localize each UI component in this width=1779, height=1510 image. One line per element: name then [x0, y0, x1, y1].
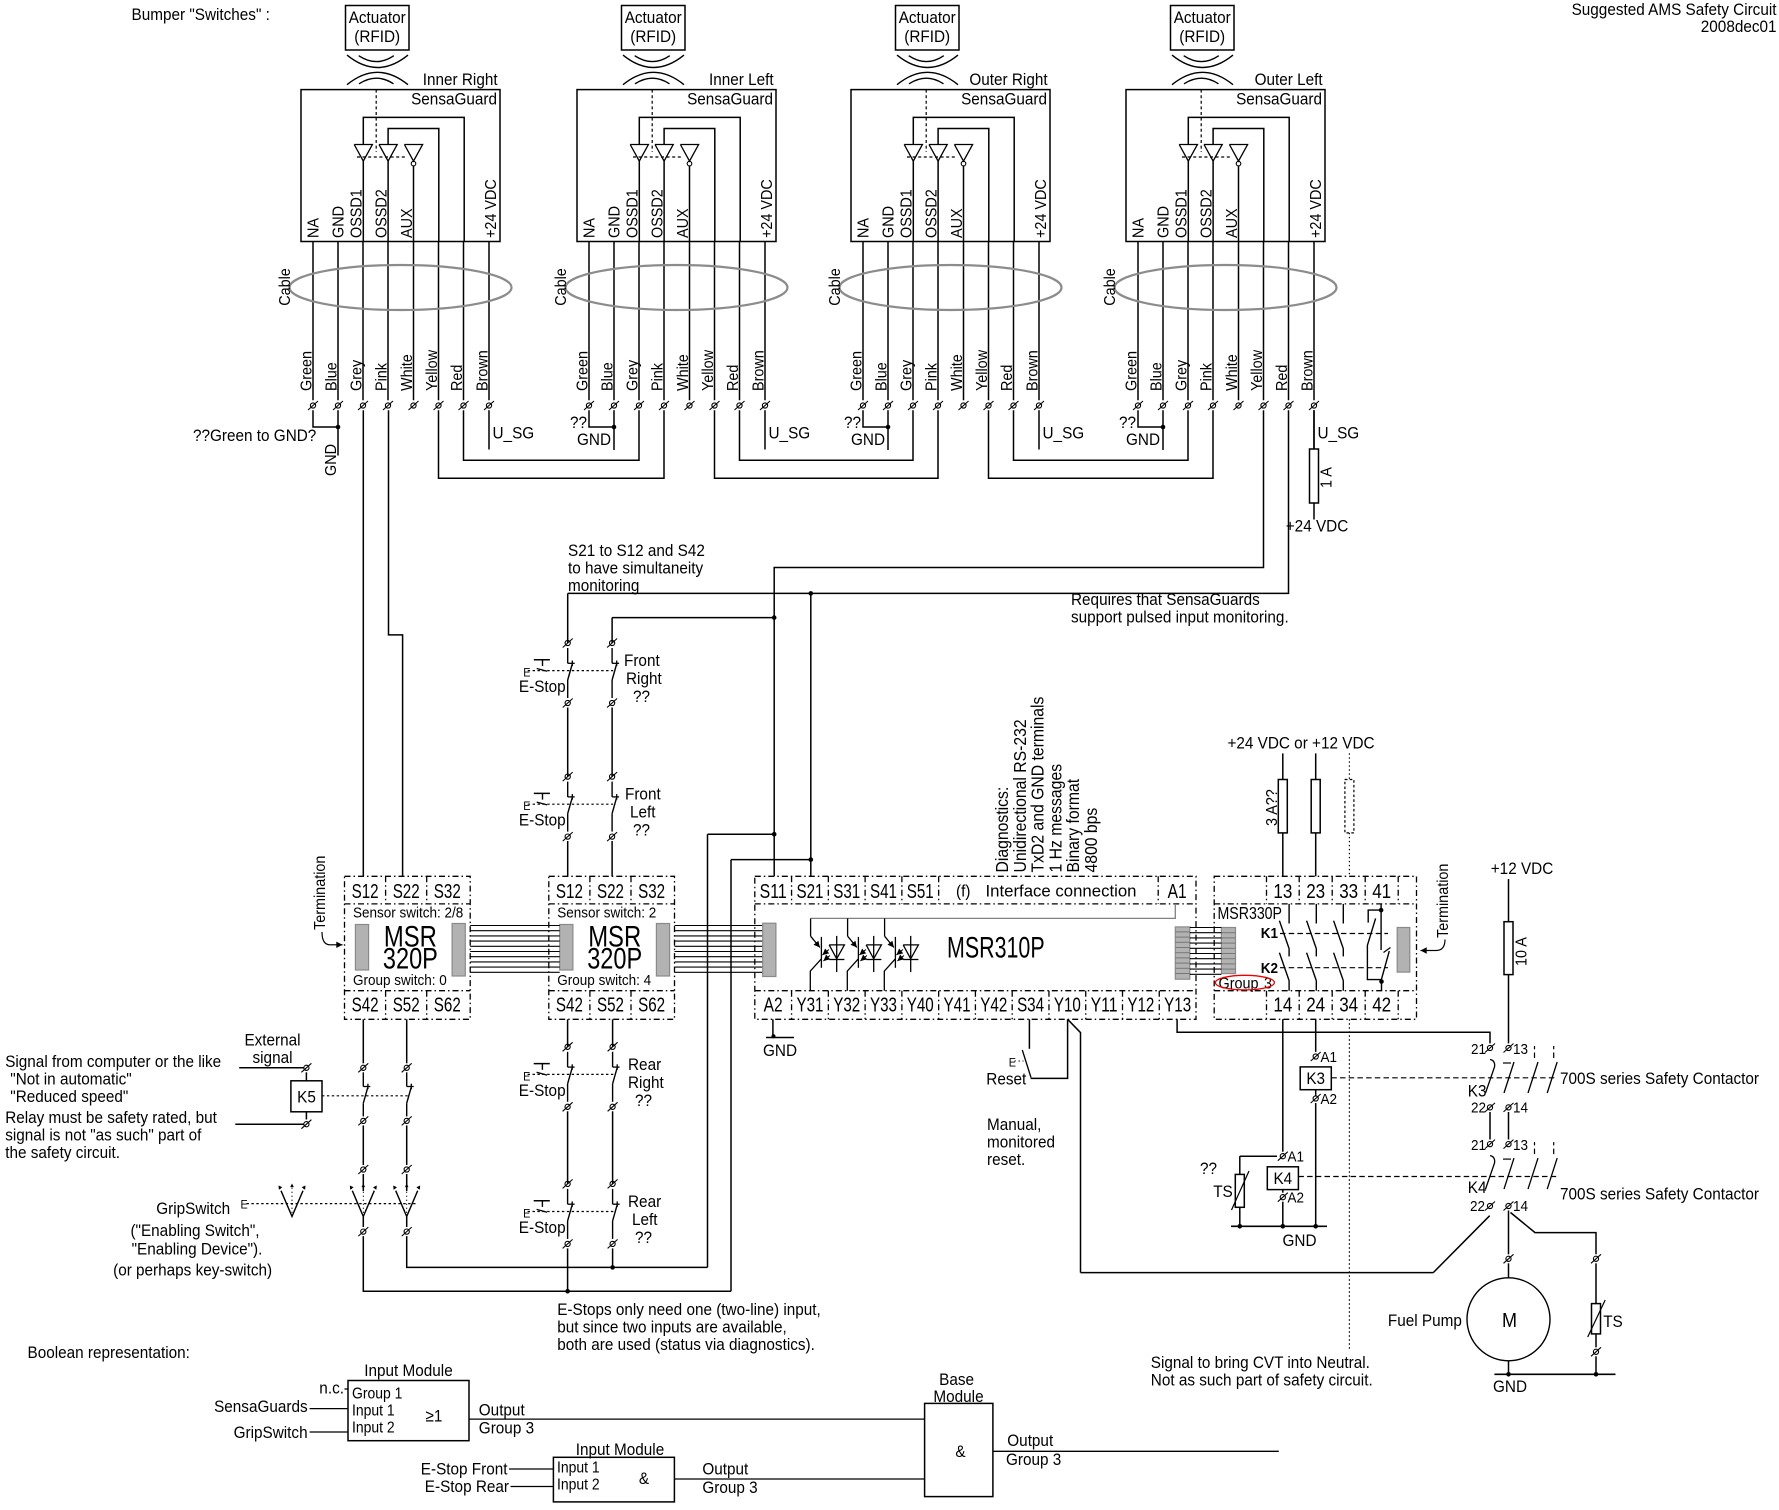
svg-text:700S series Safety Contactor: 700S series Safety Contactor: [1560, 1069, 1759, 1088]
wire MSR330P 24 to K3 A1: [1315, 1019, 1317, 1052]
svg-text:Y10: Y10: [1054, 994, 1081, 1017]
wire sensor4 Yellow to MSR310P S11: [774, 410, 1263, 876]
svg-text:22: 22: [1470, 1198, 1485, 1215]
svg-text:Brown: Brown: [1025, 350, 1042, 391]
MSR320P module 2 outer box: [549, 876, 675, 1019]
E-stop Front Left connector pair bottom: [565, 834, 570, 839]
optocoupler 2 in MSR310P: [847, 918, 849, 936]
SensaGuard box sensor 1: [301, 90, 500, 242]
wire link sensor1 Red to sensor2 Grey (OSSD1 chain): [464, 410, 640, 460]
svg-text:14: 14: [1513, 1100, 1528, 1117]
wire lower-left branch x708: [708, 833, 775, 835]
svg-text:S12: S12: [556, 880, 583, 903]
actuator (RFID) box sensor 4 Outer Left: [1171, 6, 1235, 51]
IM2 output wire to base module: [674, 1478, 924, 1480]
cable wires below sensor 1: [312, 242, 314, 401]
svg-text:E-Stop: E-Stop: [519, 1218, 566, 1237]
svg-text:GND: GND: [1283, 1231, 1317, 1250]
cable ellipse sensor 4: [1115, 265, 1337, 310]
wire motor to GND bar: [1508, 1361, 1510, 1375]
RFID antenna arcs sensor 2: [623, 55, 684, 67]
optocoupler 1 in MSR310P: [810, 918, 812, 936]
bottom rail upper (GripSwitch2 / RearLeft / x708): [407, 1236, 708, 1267]
svg-text:GND: GND: [1493, 1377, 1527, 1396]
E-stop Front Right contact left: [567, 648, 569, 663]
svg-text:A1: A1: [1168, 880, 1187, 903]
fuse F5 10A: [1508, 879, 1510, 1043]
svg-text:+24 VDC: +24 VDC: [1308, 179, 1325, 238]
wire RR chain to bottom rail: [567, 1248, 569, 1291]
svg-text:OSSD2: OSSD2: [650, 189, 667, 238]
OSSD2 output wire sensor 3: [937, 161, 939, 241]
svg-text:"Not in automatic": "Not in automatic": [10, 1070, 131, 1089]
wire link sensor1 Yellow to sensor2 Pink (OSSD2 chain): [439, 410, 665, 478]
svg-text:Termination: Termination: [312, 856, 329, 930]
svg-text:Fuel Pump: Fuel Pump: [1388, 1311, 1462, 1330]
E-stop Rear Left connector pair top: [565, 1181, 570, 1186]
MSR310P bottom cell dividers: [791, 991, 793, 1020]
svg-text:Pink: Pink: [374, 362, 391, 391]
E-stop Front Right mushroom actuator: [534, 659, 550, 661]
svg-text:41: 41: [1372, 880, 1391, 903]
svg-text:??: ??: [635, 1091, 652, 1110]
svg-text:33: 33: [1339, 880, 1358, 903]
svg-text:Front: Front: [625, 785, 661, 804]
svg-text:Actuator: Actuator: [349, 8, 406, 27]
AUX driver triangle with bubble sensor 3: [954, 145, 972, 162]
svg-text:42: 42: [1372, 994, 1391, 1017]
junction dot S21 rail at x811: [809, 591, 814, 596]
relay coil K5: [291, 1081, 322, 1112]
K3 700S extra pole slashes: [1528, 1062, 1538, 1093]
svg-text:S11: S11: [760, 880, 787, 903]
svg-text:("Enabling Switch",: ("Enabling Switch",: [130, 1221, 259, 1240]
junction dot S11 rail / lower-left branch: [772, 832, 777, 837]
wire RL chain to bottom rail: [612, 1248, 614, 1267]
fuel pump motor M: [1467, 1278, 1550, 1361]
E-stop Front Left mushroom actuator: [534, 792, 550, 794]
svg-text:AUX: AUX: [675, 208, 692, 238]
wire A2 to GND: [772, 1019, 774, 1037]
wire Y10 to K4 aux rail: [1068, 1019, 1081, 1272]
MSR320P module 1 right connector block: [452, 924, 465, 977]
svg-text:NA: NA: [582, 218, 599, 238]
svg-text:Group switch: 4: Group switch: 4: [557, 972, 651, 989]
svg-text:21: 21: [1471, 1041, 1486, 1058]
svg-text:13: 13: [1273, 880, 1292, 903]
K5 contact left chain: [361, 1065, 366, 1070]
AUX output wire sensor 1: [413, 166, 415, 242]
svg-text:??: ??: [633, 687, 650, 706]
svg-text:OSSD2: OSSD2: [1199, 189, 1216, 238]
input module 1 box (OR gate): [348, 1381, 469, 1441]
svg-text:GND: GND: [323, 444, 340, 476]
svg-text:monitoring: monitoring: [568, 576, 639, 595]
MSR310P terminal row lines: [755, 903, 1196, 905]
svg-text:S52: S52: [597, 994, 624, 1017]
cable wires below sensor 4: [1137, 242, 1139, 401]
internal feedback wire OSSD2-to-Yellow sensor 2: [664, 129, 715, 242]
fuse F2 3A?? to terminal 13: [1282, 753, 1284, 876]
svg-text:Green: Green: [299, 351, 316, 391]
AUX driver triangle with bubble sensor 1: [404, 145, 422, 162]
wire sensor4 Red to S21-S12 rail: [568, 410, 1289, 593]
svg-text:Red: Red: [1274, 365, 1291, 391]
svg-text:320P: 320P: [587, 943, 642, 976]
MSR330P right termination block: [1397, 928, 1410, 973]
svg-text:support pulsed input monitorin: support pulsed input monitoring.: [1071, 608, 1289, 627]
svg-text:Grey: Grey: [1174, 360, 1191, 391]
svg-text:Group 3: Group 3: [702, 1478, 757, 1497]
svg-text:NA: NA: [306, 218, 323, 238]
svg-text:+24 VDC or +12 VDC: +24 VDC or +12 VDC: [1227, 734, 1374, 753]
svg-text:S51: S51: [907, 880, 934, 903]
svg-text:??: ??: [1200, 1159, 1217, 1178]
svg-text:(RFID): (RFID): [630, 27, 676, 46]
svg-text:S42: S42: [352, 994, 379, 1017]
wire between RR and RL e-stops: [567, 1111, 569, 1184]
svg-text:1 A: 1 A: [1319, 467, 1336, 488]
ribbon cable MSR320P#2 to MSR310P: [675, 925, 763, 927]
relay coil K4: [1267, 1167, 1298, 1190]
K3 main contact 13-14: [1506, 1045, 1511, 1050]
svg-text:Group switch: 0: Group switch: 0: [353, 972, 447, 989]
svg-text:(or perhaps key-switch): (or perhaps key-switch): [113, 1261, 272, 1280]
OSSD2 output wire sensor 2: [663, 161, 665, 241]
MSR320P module 2 right connector block: [656, 924, 669, 977]
U_SG stub wire sensor 3: [1038, 410, 1040, 449]
wire link sensor3 Red to sensor4 Grey (OSSD1 chain): [1014, 410, 1189, 460]
fuel pump feed connector: [1506, 1256, 1511, 1261]
wire MSR330P 14 to K4 A1: [1282, 1019, 1284, 1151]
wire between FR and FL e-stops: [567, 708, 569, 777]
OSSD2 driver triangle sensor 2: [655, 145, 673, 162]
svg-text:signal is not "as such" part o: signal is not "as such" part of: [5, 1126, 201, 1145]
svg-text:Green: Green: [1124, 351, 1141, 391]
svg-text:E: E: [1009, 1056, 1016, 1070]
svg-text:14: 14: [1513, 1198, 1528, 1215]
svg-text:S21: S21: [796, 880, 823, 903]
svg-text:OSSD1: OSSD1: [625, 189, 642, 238]
svg-text:Cable: Cable: [277, 268, 294, 306]
E-stop Rear Left contact right: [612, 1189, 614, 1204]
svg-text:S31: S31: [833, 880, 860, 903]
svg-text:Grey: Grey: [899, 360, 916, 391]
svg-text:NA: NA: [1131, 218, 1148, 238]
MSR330P contact column 1: [1288, 904, 1290, 924]
svg-text:K2: K2: [1261, 960, 1278, 977]
wire K4 aux 22 diagonal to Y10 rail: [1433, 1216, 1489, 1273]
MSR330P terminal row lines: [1214, 903, 1416, 905]
MSR330P contact column 3: [1342, 904, 1344, 924]
E-stop Rear Left contact left: [567, 1189, 569, 1204]
GND bar fuel pump: [1494, 1373, 1615, 1375]
svg-text:Y40: Y40: [907, 994, 934, 1017]
svg-text:NA: NA: [856, 218, 873, 238]
svg-text:S12: S12: [352, 880, 379, 903]
connector symbols sensor 3: [860, 403, 865, 408]
wire FL e-stop to MSR320P#2 inputs: [567, 841, 569, 876]
bottom rail lower (GripSwitch1 / RearRight / x731): [363, 1236, 731, 1291]
svg-text:??: ??: [635, 1228, 652, 1247]
svg-text:GND: GND: [763, 1041, 797, 1060]
svg-text:Green: Green: [575, 351, 592, 391]
K4 linkage dashed to contacts: [1298, 1176, 1557, 1178]
base module box (AND): [925, 1403, 993, 1496]
E-stop Rear Left connector pair bottom: [565, 1241, 570, 1246]
svg-text:Group 3: Group 3: [479, 1418, 534, 1437]
internal dashed RFID link sensor 1: [375, 90, 377, 152]
E-stop Front Right connector pair top: [565, 640, 570, 645]
E-stop Rear Right connector pair top: [565, 1044, 570, 1049]
svg-text:A2: A2: [1321, 1091, 1338, 1108]
svg-text:reset.: reset.: [987, 1150, 1025, 1169]
svg-text:Termination: Termination: [1435, 864, 1452, 938]
K5 contact right chain: [404, 1065, 409, 1070]
svg-text:Cable: Cable: [827, 268, 844, 306]
svg-text:the safety circuit.: the safety circuit.: [5, 1143, 120, 1162]
E-stop Front Right contact right: [611, 648, 613, 663]
OSSD1 output wire sensor 4: [1187, 161, 1189, 241]
svg-text:U_SG: U_SG: [769, 424, 811, 443]
OSSD1 driver triangle sensor 1: [354, 145, 372, 162]
svg-text:but since two inputs are avail: but since two inputs are available,: [557, 1318, 787, 1337]
varistor TS right: [1592, 1304, 1601, 1334]
svg-text:GripSwitch: GripSwitch: [156, 1199, 230, 1218]
GripSwitch contact left chain: [352, 1191, 374, 1217]
cable ellipse sensor 1: [290, 265, 512, 310]
wire MSR1 S42 S52 to K5 contacts: [362, 1019, 364, 1063]
MSR310P top cell dividers: [791, 876, 793, 904]
svg-text:S42: S42: [556, 994, 583, 1017]
svg-text:Pink: Pink: [924, 362, 941, 391]
wire link sensor3 Yellow to sensor4 Pink (OSSD2 chain): [989, 410, 1214, 478]
svg-text:SensaGuard: SensaGuard: [687, 90, 773, 109]
GND bar for A2: [766, 1037, 794, 1039]
svg-text:S62: S62: [434, 994, 461, 1017]
svg-text:Y42: Y42: [980, 994, 1007, 1017]
svg-text:Yellow: Yellow: [424, 350, 441, 391]
fuse F3 to terminal 23: [1315, 753, 1317, 876]
svg-text:Input 2: Input 2: [557, 1477, 600, 1494]
svg-text:K3: K3: [1306, 1069, 1325, 1088]
internal feedback wire OSSD2-to-Yellow sensor 4: [1213, 129, 1264, 242]
MSR330P left connector block: [1221, 928, 1235, 974]
wire K5 bottom to signal return: [305, 1112, 307, 1120]
E-stop Rear Right connector pair bottom: [565, 1104, 570, 1109]
svg-text:13: 13: [1513, 1041, 1528, 1058]
svg-text:Blue: Blue: [874, 362, 891, 391]
svg-text:Inner Right: Inner Right: [423, 70, 498, 89]
svg-text:to have simultaneity: to have simultaneity: [568, 559, 704, 578]
svg-text:Actuator: Actuator: [899, 8, 956, 27]
wire K4 A2 to GND bar: [1282, 1202, 1284, 1227]
OSSD1 driver triangle sensor 4: [1179, 145, 1197, 162]
svg-text:E-Stop Front: E-Stop Front: [421, 1460, 508, 1479]
svg-text:GND: GND: [1156, 206, 1173, 238]
wire external signal to K5 top: [239, 1067, 303, 1069]
E-stop Front Left contact left: [567, 782, 569, 797]
svg-text:E-Stop Rear: E-Stop Rear: [425, 1477, 510, 1496]
MSR320P module 2 left connector block: [560, 925, 573, 971]
U_SG stub wire sensor 4: [1313, 410, 1315, 449]
svg-text:Group 1: Group 1: [352, 1386, 402, 1403]
svg-text:A1: A1: [1321, 1049, 1338, 1066]
svg-text:Brown: Brown: [751, 350, 768, 391]
svg-text:S52: S52: [393, 994, 420, 1017]
E-stop Rear Right contact left: [567, 1052, 569, 1067]
svg-text:24: 24: [1306, 994, 1325, 1017]
svg-text:Grey: Grey: [349, 360, 366, 391]
RFID antenna arcs sensor 1: [347, 55, 408, 67]
svg-text:S34: S34: [1017, 994, 1044, 1017]
svg-text:GripSwitch: GripSwitch: [234, 1423, 308, 1442]
svg-text:Yellow: Yellow: [1249, 350, 1266, 391]
svg-text:&: &: [639, 1469, 650, 1488]
optional dotted fuse F4 to terminal 33: [1348, 753, 1350, 779]
svg-text:Requires that SensaGuards: Requires that SensaGuards: [1071, 590, 1260, 609]
SensaGuard box sensor 4: [1126, 90, 1325, 242]
wire FR chain left leg from rail: [567, 593, 569, 643]
wire Y13 to K3 aux chain rail: [1177, 1019, 1490, 1043]
svg-text:MSR330P: MSR330P: [1218, 903, 1283, 923]
svg-text:S62: S62: [638, 994, 665, 1017]
fuse F1 1A on U_SG supply: [1313, 410, 1315, 519]
svg-text:Red: Red: [449, 365, 466, 391]
svg-text:Brown: Brown: [1300, 350, 1317, 391]
OSSD1 driver triangle sensor 2: [630, 145, 648, 162]
wire TS right branch: [1595, 1263, 1597, 1303]
E-stop Rear Right contact right: [612, 1052, 614, 1067]
svg-text:E-Stop: E-Stop: [519, 811, 566, 830]
svg-text:700S series Safety Contactor: 700S series Safety Contactor: [1560, 1185, 1759, 1204]
internal dashed RFID link sensor 2: [651, 90, 653, 152]
E-stop Rear Right mushroom actuator: [534, 1063, 550, 1065]
E-stop Front Left contact right: [611, 782, 613, 797]
svg-text:AUX: AUX: [949, 208, 966, 238]
svg-text:Left: Left: [630, 803, 656, 822]
svg-text:AUX: AUX: [1224, 208, 1241, 238]
svg-text:U_SG: U_SG: [1318, 424, 1360, 443]
svg-text:Boolean representation:: Boolean representation:: [28, 1343, 190, 1362]
svg-text:E: E: [241, 1198, 248, 1212]
svg-text:Brown: Brown: [475, 350, 492, 391]
MSR320P module 1 terminal rows: [345, 903, 471, 905]
IM1 output wire to base module: [469, 1418, 925, 1420]
svg-text:S22: S22: [393, 880, 420, 903]
svg-text:AUX: AUX: [399, 208, 416, 238]
MSR330P contact column 2: [1315, 904, 1317, 924]
wire FR chain right leg rail: [612, 617, 774, 619]
svg-text:U_SG: U_SG: [493, 424, 535, 443]
cable wires below sensor 2: [588, 242, 590, 401]
svg-text:Actuator: Actuator: [1174, 8, 1231, 27]
svg-text:SensaGuard: SensaGuard: [1236, 90, 1322, 109]
svg-text:Y32: Y32: [833, 994, 860, 1017]
actuator (RFID) box sensor 1 Inner Right: [346, 6, 410, 51]
ribbon cable MSR320P#1 to MSR320P#2: [470, 925, 560, 927]
svg-text:+24 VDC: +24 VDC: [483, 179, 500, 238]
internal dashed RFID link sensor 3: [925, 90, 927, 152]
svg-text:Rear: Rear: [628, 1192, 661, 1211]
svg-text:"Reduced speed": "Reduced speed": [10, 1087, 128, 1106]
svg-text:Actuator: Actuator: [625, 8, 682, 27]
base module output wire: [993, 1450, 1279, 1452]
svg-text:Y41: Y41: [944, 994, 971, 1017]
svg-text:Sensor switch: 2/8: Sensor switch: 2/8: [353, 905, 463, 922]
K5 linkage dotted line: [322, 1095, 408, 1097]
svg-text:M: M: [1502, 1310, 1517, 1332]
cable ellipse sensor 2: [566, 265, 788, 310]
svg-text:n.c.: n.c.: [319, 1379, 344, 1398]
svg-text:34: 34: [1339, 994, 1358, 1017]
svg-text:GND: GND: [577, 430, 611, 449]
svg-text:+24 VDC: +24 VDC: [759, 179, 776, 238]
AUX output wire sensor 2: [689, 166, 691, 242]
svg-text:Output: Output: [702, 1460, 748, 1479]
dotted wire 33-34 column continues below: [1348, 1019, 1350, 1350]
wire link sensor2 Yellow to sensor3 Pink (OSSD2 chain): [715, 410, 939, 478]
svg-text:3 A??: 3 A??: [1264, 789, 1281, 826]
optocoupler 3 in MSR310P: [884, 918, 886, 936]
svg-text:Output: Output: [479, 1401, 525, 1420]
AUX output wire sensor 4: [1238, 166, 1240, 242]
svg-text:SensaGuards: SensaGuards: [214, 1397, 308, 1416]
svg-text:White: White: [1224, 354, 1241, 391]
internal feedback wire OSSD2-to-Yellow sensor 3: [938, 129, 989, 242]
wire MSR310P S21 drop: [810, 593, 812, 876]
svg-text:Pink: Pink: [650, 362, 667, 391]
svg-text:A2: A2: [1288, 1190, 1305, 1207]
wire lower-left branch x731: [731, 859, 811, 861]
relay coil K3: [1300, 1067, 1331, 1090]
K3 A2 connector: [1313, 1096, 1318, 1101]
svg-text:Green: Green: [849, 351, 866, 391]
branch diagonal to TS right: [1511, 1213, 1597, 1255]
varistor TS left: [1240, 1155, 1277, 1157]
GripSwitch bottom connectors: [362, 1217, 364, 1228]
reset switch on S34: [1028, 1019, 1030, 1049]
actuator (RFID) box sensor 3 Outer Right: [896, 6, 960, 51]
svg-text:White: White: [399, 354, 416, 391]
svg-text:K5: K5: [297, 1088, 316, 1107]
svg-text:OSSD1: OSSD1: [899, 189, 916, 238]
svg-text:22: 22: [1471, 1100, 1486, 1117]
svg-text:A1: A1: [1288, 1149, 1305, 1166]
svg-text:Red: Red: [999, 365, 1016, 391]
svg-text:+24 VDC: +24 VDC: [1286, 517, 1349, 536]
svg-text:SensaGuard: SensaGuard: [411, 90, 497, 109]
wire MSR320P#2 S42 S52 to rear e-stops: [567, 1019, 569, 1047]
svg-text:Sensor switch: 2: Sensor switch: 2: [557, 905, 656, 922]
green-to-GND stub sensor 3: [863, 410, 888, 427]
U_SG stub wire sensor 1: [488, 410, 490, 449]
MSR330P NC column 41-42: [1380, 904, 1382, 910]
wire K5 contacts to GripSwitch contacts: [362, 1125, 364, 1165]
svg-text:Y12: Y12: [1127, 994, 1154, 1017]
svg-text:23: 23: [1306, 880, 1325, 903]
wire sensor1 OSSD2 to MSR1 S22 with jog: [389, 410, 403, 876]
svg-text:Outer Left: Outer Left: [1255, 70, 1323, 89]
svg-text:Right: Right: [626, 669, 662, 688]
internal dashed RFID link sensor 4: [1200, 90, 1202, 152]
junction dot S11 rail / FL chain branch: [772, 615, 777, 620]
MSR310P outer box: [755, 876, 1196, 1019]
svg-text:E-Stop: E-Stop: [519, 677, 566, 696]
svg-text:(RFID): (RFID): [354, 27, 400, 46]
svg-text:MSR310P: MSR310P: [947, 932, 1045, 965]
svg-text:OSSD1: OSSD1: [349, 189, 366, 238]
